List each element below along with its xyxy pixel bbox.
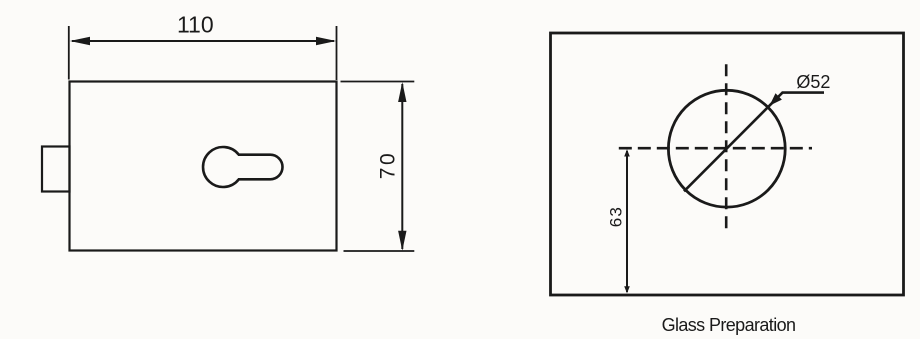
svg-text:70: 70	[377, 151, 400, 179]
svg-text:110: 110	[177, 12, 214, 38]
svg-text:Glass Preparation: Glass Preparation	[662, 315, 796, 335]
svg-text:63: 63	[606, 206, 625, 227]
svg-text:Ø52: Ø52	[796, 72, 830, 92]
